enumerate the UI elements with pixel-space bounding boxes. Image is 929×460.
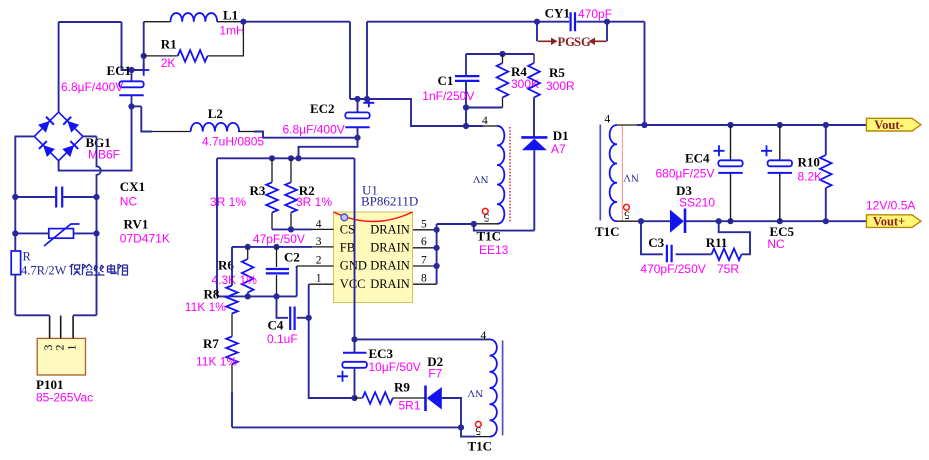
svg-text:CS: CS bbox=[340, 223, 355, 237]
junction pin6 bbox=[434, 245, 440, 251]
svg-text:1: 1 bbox=[316, 273, 322, 285]
capacitor EC3 bbox=[343, 352, 367, 354]
svg-text:EE13: EE13 bbox=[479, 243, 509, 257]
capacitor CX1 bbox=[56, 187, 62, 208]
port Vout+ bbox=[867, 215, 922, 228]
svg-text:3: 3 bbox=[316, 236, 322, 248]
T1C aux polarity dot bbox=[475, 421, 481, 427]
P101 pin 3 bbox=[49, 316, 51, 339]
wire bridge AC-left to CX1 bbox=[15, 136, 34, 197]
svg-text:1: 1 bbox=[67, 344, 79, 350]
T1C core dashed bbox=[509, 127, 511, 222]
bridge rectifier BG1 bbox=[34, 112, 83, 161]
wire R6 bottom lead bbox=[247, 293, 249, 297]
svg-text:5: 5 bbox=[483, 211, 489, 223]
svg-text:4.7R/2W: 4.7R/2W bbox=[21, 264, 67, 278]
wire right vertical to P101 bbox=[96, 233, 98, 315]
wire left vertical CX1-RV1 bbox=[14, 197, 16, 233]
wire R4 bottom lead bbox=[502, 98, 504, 108]
wire drain bus vertical bbox=[436, 224, 438, 284]
svg-text:2: 2 bbox=[316, 254, 322, 266]
wire R9 to D2 bbox=[393, 397, 419, 399]
svg-text:SG: SG bbox=[574, 35, 591, 49]
capacitor C2 bbox=[266, 269, 289, 273]
capacitor C1 bbox=[455, 76, 479, 81]
svg-text:4: 4 bbox=[482, 115, 488, 127]
wire T1C pin5 stub bbox=[474, 223, 499, 225]
svg-text:EC1: EC1 bbox=[107, 63, 132, 78]
wire right vertical CX1-RV1 bbox=[96, 197, 98, 233]
svg-text:3R 1%: 3R 1% bbox=[210, 195, 246, 209]
wire CX1 right bbox=[63, 196, 96, 198]
wire R3 bottom lead bbox=[271, 213, 273, 230]
wire EC1- jog bbox=[132, 105, 142, 107]
wire L2 left lead bbox=[152, 131, 191, 133]
wire CY1 to secondary bbox=[607, 21, 645, 23]
junction C2 bottom bbox=[273, 293, 279, 299]
P101 pin 2 bbox=[60, 316, 62, 339]
svg-text:BP86211D: BP86211D bbox=[361, 194, 418, 209]
wire P101 pin3 net bbox=[15, 314, 49, 316]
wire IC pin 7 stub bbox=[413, 265, 437, 267]
T1C secondary core bbox=[599, 125, 601, 221]
wire EC1 bottom lead bbox=[131, 95, 133, 106]
junction EC4 top bbox=[727, 122, 733, 128]
svg-text:11K 1%: 11K 1% bbox=[196, 355, 237, 369]
port Vout- bbox=[867, 118, 922, 131]
wire to fuse R bbox=[14, 233, 16, 251]
wire R5 top lead bbox=[533, 54, 535, 63]
junction CY1/rail bbox=[641, 122, 647, 128]
svg-text:C2: C2 bbox=[284, 250, 300, 265]
svg-text:D1: D1 bbox=[553, 128, 569, 143]
capacitor C4 bbox=[290, 307, 294, 331]
resistor R2 bbox=[285, 182, 297, 212]
wire IC pin 6 stub bbox=[413, 247, 437, 249]
wire C1 bottom lead bbox=[465, 81, 467, 108]
svg-text:DRAIN: DRAIN bbox=[370, 223, 410, 237]
T1C secondary polarity dot bbox=[624, 204, 630, 210]
junction CX1 left bbox=[12, 194, 18, 200]
wire R10 top lead bbox=[825, 125, 827, 155]
wire gnd drop bbox=[216, 158, 218, 296]
wire R1 right lead bbox=[208, 22, 244, 56]
wire D1 to drain node bbox=[533, 150, 535, 230]
wire EC3 to T1C aux pin4 bbox=[355, 338, 490, 340]
svg-text:0.1uF: 0.1uF bbox=[267, 332, 298, 346]
op-amp U1 BP86211D body bbox=[334, 212, 413, 303]
transformer T1C primary winding bbox=[497, 126, 504, 224]
wire VCC pin stub bbox=[309, 283, 334, 285]
svg-text:MB6F: MB6F bbox=[88, 148, 120, 162]
svg-text:470pF/250V: 470pF/250V bbox=[640, 262, 705, 276]
svg-text:6.8µF/400V: 6.8µF/400V bbox=[283, 123, 345, 137]
junction C2 top bbox=[273, 244, 279, 250]
capacitor EC5 bbox=[768, 160, 792, 166]
svg-text:R10: R10 bbox=[798, 155, 820, 170]
wire CS pin stub bbox=[312, 228, 334, 230]
T1C aux core bbox=[502, 340, 504, 435]
svg-text:C1: C1 bbox=[438, 73, 454, 88]
junction CX1 right bbox=[93, 194, 99, 200]
wire EC2- to gnd row bbox=[299, 138, 358, 159]
svg-text:11K 1%: 11K 1% bbox=[185, 300, 226, 314]
junction R6 bottom bbox=[245, 293, 251, 299]
wire T1C pin4 stub bbox=[483, 125, 497, 127]
inductor L1 bbox=[171, 13, 218, 22]
wire EC5 top lead bbox=[779, 125, 781, 160]
svg-text:3R 1%: 3R 1% bbox=[296, 195, 332, 209]
wire CX1 left bbox=[15, 196, 55, 198]
wire EC4 bottom lead bbox=[730, 173, 732, 221]
svg-text:CX1: CX1 bbox=[120, 179, 145, 194]
wire down to EC1 bbox=[122, 22, 132, 70]
wire B+ rail bbox=[243, 21, 350, 23]
wire EC2+ to T1C pin4 bbox=[367, 99, 466, 126]
svg-text:NC: NC bbox=[767, 237, 785, 251]
P101 pin 1 bbox=[72, 316, 74, 339]
wire R9 left lead bbox=[355, 397, 363, 399]
wire R8-R7 link bbox=[231, 314, 233, 337]
junction EC1 top bbox=[128, 67, 134, 73]
diode D1 bbox=[521, 136, 547, 139]
wire EC3 top lead bbox=[354, 339, 356, 352]
wire bridge-minus to EC1 bottom bbox=[59, 106, 132, 170]
wire CY1 right bbox=[576, 21, 607, 23]
wire Vout- rail bbox=[637, 124, 868, 126]
wire primary gnd row bbox=[217, 157, 355, 159]
svg-text:1nF/250V: 1nF/250V bbox=[422, 89, 474, 103]
junction sec pin5 bbox=[638, 218, 644, 224]
junction R6 top bbox=[245, 244, 251, 250]
wire AC-right vertical with hop bbox=[97, 136, 101, 197]
svg-text:47pF/50V: 47pF/50V bbox=[253, 232, 305, 246]
svg-text:4: 4 bbox=[481, 330, 487, 342]
svg-text:5: 5 bbox=[421, 218, 427, 230]
junction R10 bottom bbox=[823, 218, 829, 224]
wire fuse R to P101 bbox=[14, 275, 16, 316]
junction EC2 riser bbox=[364, 96, 370, 102]
wire bridge+ up bbox=[58, 22, 60, 112]
wire R2 top lead bbox=[290, 158, 292, 182]
wire EC5 bottom lead bbox=[779, 173, 781, 221]
junction R10 top bbox=[823, 122, 829, 128]
svg-text:T1C: T1C bbox=[477, 229, 502, 244]
svg-text:R9: R9 bbox=[394, 380, 410, 395]
svg-text:DRAIN: DRAIN bbox=[370, 277, 410, 291]
wire C2 bottom lead bbox=[276, 275, 278, 296]
svg-text:6.8µF/400V: 6.8µF/400V bbox=[61, 80, 123, 94]
svg-text:4: 4 bbox=[316, 218, 322, 230]
wire gnd row to pin2 bbox=[296, 266, 298, 296]
resistor R11 bbox=[712, 249, 742, 261]
svg-text:85-265Vac: 85-265Vac bbox=[36, 391, 93, 405]
fuse resistor R bbox=[11, 251, 20, 275]
label chinese baoxiansi dianzu bbox=[70, 264, 81, 275]
svg-text:SS210: SS210 bbox=[679, 196, 715, 210]
wire aux pin5 stub bbox=[475, 436, 490, 438]
wire FB row bbox=[232, 246, 312, 248]
svg-text:EC3: EC3 bbox=[369, 346, 394, 361]
wire C1/R4 bottom row bbox=[466, 107, 503, 109]
svg-text:470pF: 470pF bbox=[578, 7, 612, 21]
svg-text:7: 7 bbox=[421, 254, 427, 266]
wire GND pin stub bbox=[297, 265, 334, 267]
junction EC5 bottom bbox=[777, 218, 783, 224]
wire FB to R8 bbox=[231, 247, 233, 286]
junction aux rail bbox=[458, 424, 464, 430]
wire drain loop bbox=[474, 224, 535, 231]
wire to winding bbox=[466, 125, 483, 127]
wire R7 bottom lead bbox=[231, 364, 233, 392]
bridge diode bottom-right bbox=[62, 141, 78, 157]
connector P101 bbox=[37, 338, 85, 375]
junction CY1 left bbox=[534, 19, 540, 25]
junction EC2 top bbox=[354, 96, 360, 102]
wire L1 right lead bbox=[217, 21, 243, 23]
wire C4 to VCC net bbox=[297, 317, 309, 319]
svg-text:EC2: EC2 bbox=[310, 101, 335, 116]
junction T1C pin5 bbox=[471, 221, 477, 227]
wire to D3 bbox=[641, 220, 673, 222]
svg-text:6: 6 bbox=[421, 236, 427, 248]
wire CY1 left bbox=[537, 21, 569, 23]
svg-text:F7: F7 bbox=[428, 367, 442, 381]
svg-text:R11: R11 bbox=[706, 235, 728, 250]
svg-text:NV: NV bbox=[623, 172, 639, 184]
bridge diode bottom-left bbox=[39, 141, 55, 157]
wire CY1 drop to Vout- rail bbox=[644, 22, 646, 125]
svg-text:Vout-: Vout- bbox=[874, 118, 903, 132]
wire EC1 top lead bbox=[131, 70, 133, 81]
wire D2 to aux rail bbox=[442, 398, 461, 427]
wire L2 right lead bbox=[238, 131, 254, 133]
capacitor EC1 bbox=[119, 81, 143, 87]
capacitor EC2 bbox=[345, 112, 369, 118]
junction EC3 top bbox=[351, 336, 357, 342]
resistor R4 bbox=[497, 63, 509, 98]
wire aux return rail bbox=[232, 426, 461, 428]
svg-text:A7: A7 bbox=[551, 142, 566, 156]
wire to C3 bbox=[641, 221, 663, 254]
wire EC2 node bbox=[350, 98, 367, 100]
wire to aux winding pin5 bbox=[461, 427, 475, 436]
svg-text:DRAIN: DRAIN bbox=[370, 240, 410, 254]
junction R2 top bbox=[288, 155, 294, 161]
junction R1 left bbox=[141, 53, 147, 59]
svg-text:T1C: T1C bbox=[595, 224, 620, 239]
resistor R9 bbox=[363, 392, 393, 404]
svg-text:DRAIN: DRAIN bbox=[370, 259, 410, 273]
svg-text:4.7uH/0805: 4.7uH/0805 bbox=[202, 135, 264, 149]
wire FB pin stub bbox=[312, 246, 334, 248]
wire Vout+ rail bbox=[686, 220, 868, 222]
svg-text:300R: 300R bbox=[546, 79, 575, 93]
resistor R8 bbox=[226, 286, 238, 314]
wire R2 bottom lead bbox=[290, 213, 292, 230]
svg-text:NV: NV bbox=[467, 387, 483, 399]
junction EC1 bottom bbox=[128, 103, 134, 109]
U1 top red arc bbox=[334, 212, 413, 222]
transformer T1C secondary winding bbox=[610, 125, 617, 221]
wire R10 bottom lead bbox=[825, 188, 827, 221]
svg-text:R3: R3 bbox=[250, 183, 266, 198]
wire RV1 right bbox=[74, 232, 97, 234]
wire riser to C1 bottom bbox=[465, 108, 467, 127]
svg-text:FB: FB bbox=[340, 240, 355, 254]
junction pin5 bbox=[434, 227, 440, 233]
wire RV1 left bbox=[15, 232, 49, 234]
resistor R10 bbox=[820, 155, 832, 188]
svg-text:C3: C3 bbox=[648, 235, 664, 250]
wire C3 to R11 bbox=[676, 253, 712, 255]
junction CY1 right bbox=[604, 19, 610, 25]
wire drain bus top bbox=[437, 223, 474, 225]
svg-text:8.2K: 8.2K bbox=[798, 170, 823, 184]
svg-text:4.3K 1%: 4.3K 1% bbox=[212, 273, 258, 287]
T1C polarity dot bbox=[482, 208, 488, 214]
resistor R1 bbox=[178, 50, 208, 62]
wire C1 top lead bbox=[465, 54, 467, 76]
svg-text:EC4: EC4 bbox=[685, 151, 710, 166]
svg-text:R: R bbox=[23, 250, 32, 264]
junction C1 bottom bbox=[463, 104, 469, 110]
svg-text:5R1: 5R1 bbox=[399, 399, 421, 413]
svg-text:PG: PG bbox=[558, 35, 576, 49]
junction R11 return bbox=[716, 218, 722, 224]
svg-text:75R: 75R bbox=[717, 262, 739, 276]
svg-text:R5: R5 bbox=[549, 65, 565, 80]
wire L1 left lead bbox=[144, 21, 171, 23]
junction RV1 right bbox=[93, 230, 99, 236]
capacitor EC4 bbox=[718, 160, 742, 166]
svg-text:T1C: T1C bbox=[468, 439, 493, 454]
svg-text:10µF/50V: 10µF/50V bbox=[369, 360, 421, 374]
junction EC3 bottom bbox=[351, 395, 357, 401]
wire EC2 riser bbox=[366, 22, 368, 99]
wire C2 top lead bbox=[276, 247, 278, 267]
svg-text:12V/0.5A: 12V/0.5A bbox=[866, 199, 915, 213]
junction EC4 bottom bbox=[727, 218, 733, 224]
svg-text:4: 4 bbox=[605, 114, 611, 126]
svg-text:5: 5 bbox=[624, 209, 630, 221]
wire PG stub bbox=[536, 22, 538, 42]
capacitor CY1 bbox=[571, 12, 575, 31]
wire R11 return bbox=[719, 221, 750, 254]
svg-text:CY1: CY1 bbox=[545, 6, 570, 21]
net arrow SG bbox=[595, 40, 607, 42]
wire gnd row bbox=[217, 295, 297, 297]
wire EC1+ to filter node bbox=[132, 22, 144, 70]
svg-text:1mH: 1mH bbox=[219, 24, 244, 38]
wire R6 top lead bbox=[247, 247, 249, 259]
resistor R7 bbox=[226, 337, 238, 365]
junction C4 right bbox=[306, 315, 312, 321]
wire sec pin5 stub bbox=[617, 220, 641, 222]
varistor RV1 bbox=[49, 229, 74, 239]
transformer T1C aux winding bbox=[490, 339, 497, 436]
wire IC pin 5 stub bbox=[413, 229, 437, 231]
wire VCC net vertical bbox=[309, 284, 355, 398]
wire R7 to aux rail bbox=[231, 392, 233, 427]
wire bridge AC-right bbox=[83, 135, 97, 137]
resistor R3 bbox=[266, 182, 278, 212]
bridge diode top-right bbox=[63, 117, 79, 133]
T1C secondary inner line bbox=[621, 125, 623, 221]
svg-text:5: 5 bbox=[475, 425, 481, 437]
svg-text:C4: C4 bbox=[268, 318, 284, 333]
inductor L2 bbox=[191, 123, 239, 132]
svg-text:2K: 2K bbox=[161, 56, 176, 70]
diode D2 bbox=[424, 386, 427, 412]
junction R3 top bbox=[269, 155, 275, 161]
svg-text:VCC: VCC bbox=[340, 277, 366, 291]
svg-text:NV: NV bbox=[473, 173, 489, 185]
wire CS row bbox=[272, 228, 312, 230]
junction gnd row corner bbox=[295, 155, 301, 161]
wire L2 to EC2- bbox=[254, 132, 358, 138]
svg-text:07D471K: 07D471K bbox=[120, 232, 170, 246]
net arrow PG bbox=[538, 40, 551, 42]
resistor R5 bbox=[528, 63, 540, 98]
wire snubber top row bbox=[466, 53, 534, 55]
wire down to EC2 node bbox=[349, 22, 351, 99]
wire EC2 top lead bbox=[357, 99, 359, 112]
wire rail to CY1 bbox=[367, 21, 537, 23]
wire EC3 bottom lead bbox=[354, 368, 356, 398]
svg-text:GND: GND bbox=[340, 259, 367, 273]
junction EC5 top bbox=[777, 122, 783, 128]
wire R5 to D1 bbox=[533, 98, 535, 138]
svg-text:300K: 300K bbox=[511, 77, 539, 91]
wire EC2 bottom lead bbox=[357, 127, 359, 138]
wire IC pin 8 stub bbox=[413, 283, 437, 285]
wire SG stub bbox=[606, 22, 608, 42]
svg-text:RV1: RV1 bbox=[124, 217, 149, 232]
U1 pin1 circle bbox=[341, 214, 348, 221]
junction pin7 bbox=[434, 263, 440, 269]
svg-text:8: 8 bbox=[421, 273, 427, 285]
svg-text:NC: NC bbox=[120, 195, 138, 209]
wire EC2- vertical through IC bbox=[354, 158, 356, 339]
wire to C4 bbox=[277, 296, 289, 317]
wire sec pin4 stub bbox=[617, 124, 637, 126]
svg-text:2: 2 bbox=[54, 344, 66, 350]
wire EC4 top lead bbox=[730, 125, 732, 160]
wire P101 pin1 net bbox=[73, 314, 96, 316]
junction pin4 node bbox=[463, 123, 469, 129]
wire R4 top lead bbox=[502, 54, 504, 63]
junction R4 top bbox=[499, 51, 505, 57]
svg-text:R7: R7 bbox=[203, 336, 219, 351]
svg-text:R1: R1 bbox=[161, 37, 177, 52]
junction RV1 left bbox=[12, 230, 18, 236]
wire R3 top lead bbox=[271, 158, 273, 182]
wire EC1- to L2 bbox=[141, 106, 152, 131]
svg-text:L1: L1 bbox=[223, 8, 238, 23]
wire top-left rail bbox=[59, 21, 122, 23]
junction R2 bottom bbox=[288, 226, 294, 232]
svg-text:Vout+: Vout+ bbox=[873, 215, 905, 229]
bridge diode top-left bbox=[38, 117, 54, 133]
svg-text:680µF/25V: 680µF/25V bbox=[656, 167, 715, 181]
resistor R6 bbox=[242, 259, 254, 293]
junction EC2 bottom bbox=[354, 135, 360, 141]
svg-text:L2: L2 bbox=[208, 106, 223, 121]
junction L1/R1 right bbox=[240, 19, 246, 25]
wire R1 left lead bbox=[144, 55, 178, 57]
capacitor C3 bbox=[667, 245, 672, 262]
